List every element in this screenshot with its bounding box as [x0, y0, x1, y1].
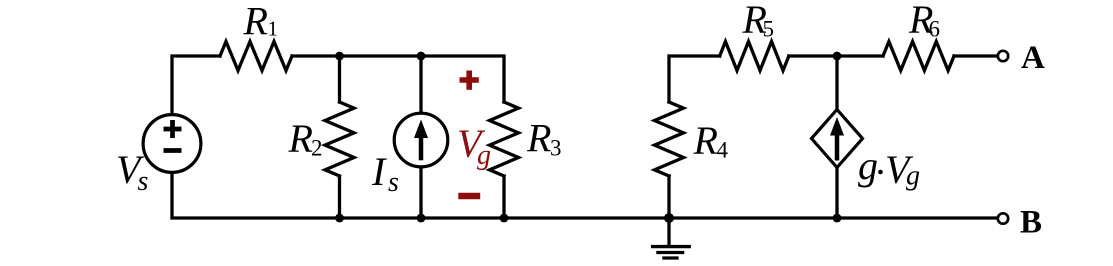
svg-text:R: R — [526, 116, 551, 161]
svg-text:5: 5 — [763, 17, 775, 42]
svg-text:3: 3 — [550, 136, 562, 161]
svg-text:g: g — [858, 143, 878, 188]
svg-text:2: 2 — [311, 136, 323, 161]
svg-text:R: R — [288, 116, 313, 161]
svg-text:s: s — [388, 167, 399, 198]
svg-text:s: s — [138, 166, 149, 197]
svg-text:R: R — [693, 118, 718, 163]
svg-text:6: 6 — [929, 17, 941, 42]
svg-text:1: 1 — [268, 17, 279, 41]
svg-text:I: I — [371, 149, 387, 194]
svg-text:4: 4 — [717, 138, 729, 163]
svg-text:g: g — [906, 161, 920, 192]
svg-text:g: g — [477, 140, 491, 171]
svg-text:A: A — [1021, 40, 1045, 76]
svg-text:B: B — [1020, 205, 1042, 241]
svg-text:R: R — [243, 0, 268, 44]
